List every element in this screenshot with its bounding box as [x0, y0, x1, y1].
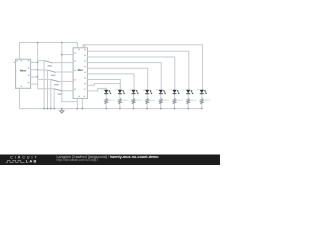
resistor R8	[201, 98, 211, 108]
svg-text:330 Ω: 330 Ω	[109, 100, 115, 102]
pin number marks	[16, 45, 85, 97]
ground rail	[20, 108, 203, 110]
junction dot LED2 rail	[119, 108, 121, 110]
wire pin6 to LED2	[87, 80, 120, 90]
CircuitLab logo CIRCUIT	[10, 156, 38, 160]
footer bar	[0, 155, 220, 166]
svg-text:330 Ω: 330 Ω	[177, 100, 183, 102]
wire top main	[20, 43, 78, 60]
CircuitLab logo LAB	[26, 159, 38, 164]
LED D4	[142, 90, 152, 99]
switch SW4	[38, 89, 74, 109]
logo waveform	[6, 160, 25, 162]
junction dots top wire	[37, 42, 63, 56]
wire left box bottom to ground rail	[19, 88, 21, 108]
IC U2 label	[78, 68, 84, 72]
svg-text:330 Ω: 330 Ω	[123, 100, 129, 102]
junction dot LED8 rail	[201, 108, 203, 110]
svg-text:330 Ω: 330 Ω	[164, 100, 170, 102]
resistor R2	[119, 98, 129, 108]
wire top to LED8	[83, 45, 203, 90]
node net x61.8	[62, 43, 78, 102]
svg-text:330 Ω: 330 Ω	[150, 100, 156, 102]
LED D3	[129, 90, 139, 99]
wire pin7 jog	[87, 84, 120, 90]
switch SW3	[38, 79, 74, 108]
LED D1	[101, 90, 111, 99]
LED D2	[115, 90, 125, 99]
junction dot LED3 rail	[133, 108, 135, 110]
wire pin5 to LED3	[87, 74, 134, 90]
IC U2 bottom pins to ground rail	[77, 98, 82, 108]
wire pin3 to LED5	[87, 63, 161, 90]
IC U1 right pins to bus	[31, 62, 38, 84]
resistor R3	[132, 98, 142, 108]
footer text line1	[57, 155, 160, 159]
junction dot LED1 rail	[105, 108, 107, 110]
resistor R7	[187, 98, 197, 108]
switch SW1	[38, 61, 74, 109]
svg-text:330 Ω: 330 Ω	[136, 100, 142, 102]
output wires right pins to LED columns	[87, 51, 188, 91]
resistor R4	[146, 98, 156, 108]
junction dot LED4 rail	[146, 108, 148, 110]
svg-text:330 Ω: 330 Ω	[205, 100, 211, 102]
junction dots ground rail	[43, 108, 83, 110]
svg-text:330 Ω: 330 Ω	[191, 100, 197, 102]
ground symbol	[60, 109, 64, 114]
wire pin8 to LED1	[87, 88, 106, 91]
LED D7	[183, 90, 193, 99]
LED D5	[156, 90, 166, 99]
node bus drop x37.6	[37, 43, 39, 89]
wire pin2 to LED6	[87, 57, 174, 90]
IC U2 center box	[73, 48, 87, 99]
LED D8	[197, 90, 207, 99]
resistor R6	[173, 98, 183, 108]
wire pin4 to LED4	[87, 68, 147, 89]
switch SW2	[38, 70, 74, 109]
junction dot LED6 rail	[174, 108, 176, 110]
IC U1 label	[20, 68, 27, 72]
resistor R5	[160, 98, 170, 108]
IC U1 left pin stub	[13, 61, 15, 63]
junction dots bus	[37, 62, 39, 78]
LED D6	[170, 90, 180, 99]
resistor R1	[105, 98, 115, 108]
svg-text:LAB: LAB	[26, 159, 38, 164]
wire pin1 to LED7	[87, 51, 188, 89]
junction dot LED5 rail	[160, 108, 162, 110]
svg-text:http://circuitlab.com/c/24bjs7: http://circuitlab.com/c/24bjs7	[57, 158, 99, 162]
footer text line2 url	[57, 158, 99, 162]
junction dot LED7 rail	[187, 108, 189, 110]
IC U1 left box	[16, 59, 31, 88]
